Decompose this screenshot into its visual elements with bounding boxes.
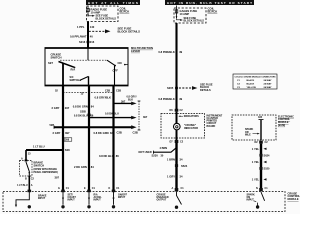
svg-text:1 GRY: 1 GRY bbox=[167, 175, 175, 179]
svg-text:52B: 52B bbox=[50, 123, 55, 127]
svg-text:1 BRN: 1 BRN bbox=[167, 158, 175, 162]
svg-text:LEVER: LEVER bbox=[131, 49, 140, 53]
svg-text:HOT IN RUN, BULB TEST OR START: HOT IN RUN, BULB TEST OR START bbox=[167, 1, 252, 5]
wire bulb to connector bbox=[176, 130, 178, 140]
svg-text:A: A bbox=[21, 158, 23, 161]
splice S216 bbox=[79, 40, 95, 44]
label COIL BLACK 2 bbox=[208, 6, 218, 13]
svg-text:G: G bbox=[58, 187, 60, 190]
brake switch text bbox=[34, 161, 58, 174]
svg-text:39: 39 bbox=[179, 97, 182, 101]
svg-text:0.8 DK BLU: 0.8 DK BLU bbox=[105, 111, 119, 115]
arrow see fuse block details (inside box) bbox=[88, 15, 93, 16]
svg-text:NOT USED: NOT USED bbox=[139, 150, 152, 154]
wire labels below bus bbox=[53, 130, 138, 135]
label MULTIFUNCTION LEVER bbox=[131, 46, 153, 53]
cruise switch assembly box bbox=[45, 48, 128, 86]
svg-text:0.8 DK BLU: 0.8 DK BLU bbox=[74, 114, 88, 118]
ECM internal label + arrow bbox=[245, 128, 260, 136]
svg-text:SWITCH: SWITCH bbox=[70, 79, 80, 82]
svg-text:2 DK GRN: 2 DK GRN bbox=[74, 165, 87, 169]
fuse F1 symbol bbox=[87, 6, 90, 17]
svg-text:C2B: C2B bbox=[116, 89, 121, 93]
svg-text:0.8 DK GRN: 0.8 DK GRN bbox=[73, 105, 88, 109]
svg-text:BLOCK DETAILS: BLOCK DETAILS bbox=[96, 16, 117, 20]
svg-text:140: 140 bbox=[90, 25, 95, 29]
svg-text:84: 84 bbox=[91, 165, 94, 169]
svg-text:1 YEL: 1 YEL bbox=[252, 147, 260, 151]
wire label 0.8 PPL 40 bbox=[70, 34, 93, 38]
module internals: r/a input bbox=[84, 187, 102, 208]
svg-text:K: K bbox=[109, 187, 111, 190]
contact A bbox=[25, 160, 28, 162]
wire brake to module bbox=[28, 176, 30, 192]
svg-text:0.8 GRY/BLK: 0.8 GRY/BLK bbox=[95, 96, 112, 100]
svg-text:SET: SET bbox=[48, 61, 53, 65]
svg-text:C2B: C2B bbox=[117, 130, 122, 134]
connector C2 ecm bbox=[255, 141, 269, 145]
connector C2 cluster bottom bbox=[170, 140, 184, 144]
switch SET blade bbox=[48, 61, 75, 72]
wire YEL down from ECM bbox=[260, 144, 262, 188]
wire label 1 YEL (3) bbox=[252, 177, 267, 181]
svg-text:C1/C2/C3 CRUISE MODULE CONNECT: C1/C2/C3 CRUISE MODULE CONNECTORS bbox=[235, 76, 276, 78]
arrow off-page 1 bbox=[114, 96, 137, 106]
svg-text:S520: S520 bbox=[264, 167, 271, 171]
label COIL BLACK bbox=[120, 6, 130, 13]
svg-text:INPUT: INPUT bbox=[247, 199, 255, 202]
not used branch bbox=[139, 146, 177, 158]
svg-text:SWITCH: SWITCH bbox=[51, 56, 62, 60]
label CRUISE CONTROL MODULE bbox=[288, 191, 301, 201]
svg-text:R/A: R/A bbox=[71, 68, 76, 72]
svg-text:S624: S624 bbox=[264, 153, 271, 157]
svg-text:0.8 PPL/WHT: 0.8 PPL/WHT bbox=[70, 34, 87, 38]
label INSTRUMENT CLUSTER bbox=[207, 114, 223, 127]
wire PPL from fuse to cruise switch bbox=[87, 22, 89, 49]
connector C2 cluster top bbox=[170, 109, 184, 112]
svg-text:10 AMP: 10 AMP bbox=[180, 12, 190, 16]
wire off-page 3 (horizontal bus) bbox=[50, 123, 137, 129]
connector C1 spark bbox=[256, 187, 268, 190]
svg-text:397: 397 bbox=[65, 131, 70, 135]
cruise control module box (dashed) bbox=[3, 192, 285, 212]
wire down to brake switch bbox=[25, 150, 27, 161]
wire label 0.8 PNK/BLK 39 bbox=[158, 50, 182, 54]
svg-text:84: 84 bbox=[91, 105, 94, 109]
wire GRY below box bbox=[62, 86, 64, 192]
svg-text:86: 86 bbox=[116, 154, 119, 158]
svg-text:397: 397 bbox=[55, 175, 60, 179]
fuse block 1 (dashed) bbox=[87, 6, 119, 22]
svg-text:434: 434 bbox=[258, 116, 263, 119]
svg-text:BLACK: BLACK bbox=[247, 79, 255, 82]
svg-text:BLOCK DETAILS: BLOCK DETAILS bbox=[118, 30, 141, 34]
svg-text:84: 84 bbox=[110, 131, 113, 135]
svg-text:397: 397 bbox=[143, 115, 148, 119]
wire labels 2 GRY 297 / 0.8 DK GRN 84 bbox=[52, 105, 95, 110]
svg-text:PEDAL DEPRESSED): PEDAL DEPRESSED) bbox=[34, 171, 58, 174]
module internals: on/off input bbox=[109, 187, 128, 208]
svg-text:S524: S524 bbox=[181, 164, 188, 168]
label CRUISE SWITCH bbox=[51, 53, 62, 60]
svg-text:A: A bbox=[31, 184, 33, 187]
brake switch blade bbox=[26, 162, 29, 176]
module internals: engage switch bbox=[157, 192, 182, 209]
power label HOT IN RUN bbox=[165, 0, 254, 5]
svg-text:0.8 PNK/BLK: 0.8 PNK/BLK bbox=[158, 50, 174, 54]
svg-text:A: A bbox=[172, 187, 174, 190]
svg-text:39: 39 bbox=[179, 50, 182, 54]
svg-text:INDICATOR: INDICATOR bbox=[184, 126, 198, 130]
wire PNK/BLK bbox=[175, 23, 177, 109]
svg-text:BLK: BLK bbox=[128, 98, 133, 101]
svg-text:1 PPL: 1 PPL bbox=[77, 25, 85, 29]
wire into switch common bbox=[87, 48, 89, 60]
wire DK BLU below box bbox=[112, 86, 114, 192]
wire label 1 BRN 34 bbox=[167, 158, 183, 162]
svg-text:INPUT: INPUT bbox=[94, 199, 102, 202]
svg-text:34: 34 bbox=[180, 175, 183, 179]
svg-text:0.8 DK BLU: 0.8 DK BLU bbox=[99, 154, 114, 158]
splice S520 bbox=[259, 167, 270, 171]
svg-text:306: 306 bbox=[65, 139, 70, 142]
svg-text:OFF: OFF bbox=[113, 68, 119, 72]
splice S206 tag bbox=[64, 138, 72, 142]
svg-text:0.8 PNK/BLK: 0.8 PNK/BLK bbox=[158, 97, 174, 101]
svg-text:INDICATORS: INDICATORS bbox=[184, 115, 199, 118]
connector legend table bbox=[233, 74, 277, 89]
svg-text:MODULE: MODULE bbox=[288, 197, 299, 201]
module internals: set/coast input bbox=[58, 187, 76, 208]
svg-text:24-WAY: 24-WAY bbox=[264, 86, 272, 89]
svg-text:S205: S205 bbox=[167, 86, 174, 90]
svg-text:2 GRY: 2 GRY bbox=[53, 131, 61, 135]
wire label 0.8 PNK/BLK 39 (2) bbox=[158, 97, 182, 101]
svg-text:216: 216 bbox=[90, 40, 95, 44]
dashed link line bbox=[60, 59, 107, 61]
svg-text:INPUT: INPUT bbox=[38, 197, 46, 200]
wire brake branch horizontal bbox=[26, 149, 64, 151]
wire label 1 GRY 34 bbox=[167, 175, 183, 179]
switch ON/OFF blade bbox=[107, 60, 128, 72]
svg-text:0.8 DK GRN: 0.8 DK GRN bbox=[94, 131, 109, 135]
svg-text:S216: S216 bbox=[79, 40, 86, 44]
switch stems to box bottom bbox=[62, 63, 64, 85]
bulb cruise indicator bbox=[174, 123, 181, 130]
splice S285 bbox=[80, 110, 91, 115]
svg-text:1 LT BLU: 1 LT BLU bbox=[17, 184, 28, 187]
fuse F2 symbol bbox=[176, 6, 178, 19]
svg-text:BLACK: BLACK bbox=[120, 9, 130, 13]
wire label 0.8 DK BLU 86 bbox=[74, 99, 126, 117]
svg-text:YELLOW: YELLOW bbox=[247, 87, 257, 89]
svg-text:2 GRY: 2 GRY bbox=[52, 106, 60, 110]
svg-text:397: 397 bbox=[121, 99, 126, 103]
svg-text:297: 297 bbox=[65, 106, 70, 110]
svg-text:DETAILS: DETAILS bbox=[200, 88, 211, 92]
connector row dashed C2B bbox=[55, 89, 121, 96]
svg-text:C2B: C2B bbox=[105, 89, 110, 93]
label RADIO FUSE 10 AMP bbox=[91, 8, 108, 15]
indicators arrow bbox=[178, 115, 199, 118]
wire GRY down from cluster bbox=[175, 143, 177, 188]
svg-text:BLACK: BLACK bbox=[208, 9, 218, 13]
ECM internal node 434 bbox=[258, 116, 264, 140]
svg-text:S230: S230 bbox=[152, 154, 159, 158]
svg-text:HOT AT ALL TIMES: HOT AT ALL TIMES bbox=[88, 1, 138, 5]
wire into bulb bbox=[176, 112, 178, 124]
svg-text:N: N bbox=[256, 187, 258, 190]
off-page brace bbox=[138, 101, 148, 130]
svg-text:4 BRN: 4 BRN bbox=[160, 146, 168, 150]
svg-text:S08: S08 bbox=[65, 148, 70, 152]
wire labels 1 PPL 140 bbox=[77, 25, 95, 29]
label CRUISE INDICATOR bbox=[184, 123, 198, 130]
wire label 1 YEL (2) bbox=[252, 160, 267, 164]
svg-text:BOARD: BOARD bbox=[207, 125, 216, 128]
svg-text:B: B bbox=[25, 177, 27, 180]
splice S524 bbox=[175, 164, 188, 168]
svg-text:MILE: MILE bbox=[245, 133, 251, 136]
module internals: brake input bbox=[15, 192, 47, 209]
svg-text:SWITCH: SWITCH bbox=[34, 164, 45, 168]
svg-text:S285: S285 bbox=[80, 110, 87, 114]
module internals: spark input switch bbox=[247, 192, 265, 209]
svg-text:ON: ON bbox=[118, 61, 122, 65]
wire DK GRN below box bbox=[88, 86, 90, 192]
svg-text:24-WAY: 24-WAY bbox=[264, 82, 272, 85]
arrow see fuse details bbox=[177, 17, 181, 20]
svg-text:BLACK: BLACK bbox=[247, 82, 255, 85]
arrow SEE FUSE BLOCK DETAILS bbox=[89, 26, 140, 33]
svg-text:INPUT: INPUT bbox=[68, 199, 76, 202]
arrow off-page 2 bbox=[89, 116, 137, 120]
power label HOT AT ALL TIMES bbox=[86, 0, 140, 5]
ECM box (dashed) bbox=[232, 115, 276, 140]
svg-text:OUTPUT: OUTPUT bbox=[157, 199, 167, 202]
connector C1 engage bbox=[172, 187, 185, 190]
module pin connectors on top edge bbox=[28, 188, 263, 192]
label ELECTRONIC CONTROL MODULE bbox=[278, 115, 294, 126]
switch S/C blade lower bbox=[70, 76, 89, 82]
wire label 1 YEL (1) bbox=[252, 147, 267, 151]
brake switch box (dashed) bbox=[20, 161, 33, 177]
svg-text:(ECM): (ECM) bbox=[278, 124, 285, 127]
fuse block 2 (dashed) bbox=[174, 8, 206, 23]
svg-text:24-WAY: 24-WAY bbox=[264, 79, 272, 82]
instrument cluster box (dashed) bbox=[161, 114, 205, 139]
svg-text:40: 40 bbox=[90, 34, 93, 38]
svg-text:C2B: C2B bbox=[133, 130, 138, 134]
label GAGES FUSE 10 AMP bbox=[180, 9, 198, 16]
svg-text:1 LT BLU: 1 LT BLU bbox=[33, 144, 45, 148]
svg-text:INPUT: INPUT bbox=[118, 196, 126, 199]
svg-text:1 YEL: 1 YEL bbox=[252, 177, 260, 181]
wire labels near module bbox=[55, 154, 120, 180]
svg-text:BLOCK DETAILS: BLOCK DETAILS bbox=[184, 19, 205, 23]
splice S205 bbox=[167, 82, 213, 92]
svg-text:34: 34 bbox=[180, 158, 183, 162]
splice S624 bbox=[259, 153, 270, 157]
svg-text:1 YEL: 1 YEL bbox=[252, 160, 260, 164]
